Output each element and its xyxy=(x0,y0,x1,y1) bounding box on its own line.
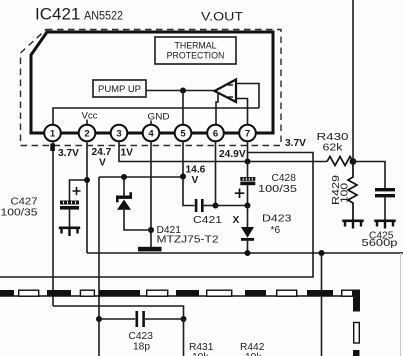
bus pad filled 2 xyxy=(47,290,71,297)
wire C423 left lead xyxy=(99,318,135,320)
bus pad filled 1 xyxy=(0,290,14,297)
svg-text:C421: C421 xyxy=(193,215,222,226)
svg-text:D423: D423 xyxy=(262,214,292,225)
wire op-amp right edge mid to pin7 xyxy=(236,99,248,126)
node pin7 rail junction xyxy=(245,159,251,165)
wire pin5 down xyxy=(182,142,184,177)
wire Vcc stub xyxy=(86,120,88,126)
svg-text:X: X xyxy=(233,215,240,226)
node pin6 C421 junction xyxy=(213,203,219,209)
bus pad filled 6 xyxy=(307,290,333,297)
node pin5 rail junction xyxy=(180,174,186,180)
capacitor C423 xyxy=(136,311,145,327)
svg-text:R430: R430 xyxy=(317,132,349,143)
node pin2/C427 junction xyxy=(84,177,90,183)
thermal protection block xyxy=(155,37,236,64)
node pin5 tap on pump-up wire xyxy=(180,88,186,94)
ground bar pin4 xyxy=(138,247,162,252)
svg-text:14.6: 14.6 xyxy=(186,165,206,176)
capacitor C427 plus sign xyxy=(73,187,81,195)
pin 2 xyxy=(79,125,96,142)
op-amp U1 (triangle) xyxy=(215,80,237,103)
svg-text:V: V xyxy=(99,158,106,169)
wire R431 branch down xyxy=(183,319,185,356)
capacitor C421 xyxy=(195,199,204,212)
wire GND stub xyxy=(150,121,152,126)
pin 3 xyxy=(111,125,128,142)
bus pad filled 3 xyxy=(99,290,140,297)
node C428/D423 junction xyxy=(245,203,251,209)
ground R429 xyxy=(342,220,363,229)
op-amp input tick + xyxy=(228,84,233,86)
bus pad filled 4 xyxy=(176,290,199,297)
wire pin5 to pump-up node xyxy=(182,91,184,126)
wire pin6 node to C428 node xyxy=(216,205,248,207)
svg-text:18p: 18p xyxy=(133,342,150,353)
op-amp input tick - xyxy=(228,96,233,98)
node D423 on rail xyxy=(245,250,251,256)
wire op-amp inverting input to pin6 xyxy=(216,94,218,125)
capacitor C425 plates xyxy=(375,188,395,197)
wire C423 right lead xyxy=(145,318,184,320)
node C423 left xyxy=(96,316,102,322)
svg-text:3.7V: 3.7V xyxy=(285,138,306,149)
bus pad open 5 xyxy=(277,290,297,296)
bus pad open 4 xyxy=(207,290,232,296)
node D421 top junction xyxy=(121,174,127,180)
resistor R430 zigzag xyxy=(327,157,353,166)
svg-text:10k: 10k xyxy=(192,352,209,356)
bus pad open 2 xyxy=(80,290,94,296)
svg-text:6: 6 xyxy=(213,129,218,140)
svg-text:V: V xyxy=(192,175,199,186)
node C423 right xyxy=(181,316,187,322)
bus pad filled 5 xyxy=(245,290,266,297)
svg-text:*6: *6 xyxy=(271,225,281,236)
svg-text:100: 100 xyxy=(340,183,351,203)
wire pin1 down xyxy=(52,142,54,307)
bus pad open 3 xyxy=(147,290,168,296)
svg-text:10k: 10k xyxy=(245,352,262,356)
node rail to bottom branch xyxy=(319,250,325,256)
svg-text:100/35: 100/35 xyxy=(258,184,297,195)
svg-text:3.7V: 3.7V xyxy=(58,148,79,159)
svg-text:1: 1 xyxy=(50,129,56,140)
svg-text:7: 7 xyxy=(245,129,250,140)
svg-text:THERMAL: THERMAL xyxy=(174,41,216,51)
bus pad open 6 xyxy=(342,290,353,296)
svg-text:AN5522: AN5522 xyxy=(84,11,123,23)
wire left box vertical x99 xyxy=(98,177,100,356)
right connector pad filled top xyxy=(353,290,360,312)
wire bottom rail y253 xyxy=(87,252,403,254)
wire pin7 down xyxy=(247,142,249,162)
wire pin5 to C421 xyxy=(183,177,195,206)
node R430/R429 junction xyxy=(350,158,357,165)
svg-text:PUMP UP: PUMP UP xyxy=(98,84,141,94)
wire pump-up output to op-amp apex xyxy=(146,90,214,92)
right connector pad open xyxy=(354,323,360,344)
svg-text:MTZJ75-T2: MTZJ75-T2 xyxy=(157,235,219,246)
wire pin7 node down to C428 xyxy=(247,162,249,178)
diode D421 zener xyxy=(116,177,151,230)
wire C428 to node xyxy=(247,185,249,205)
svg-text:GND: GND xyxy=(148,112,170,122)
wire C421 to pin6 line xyxy=(204,205,216,207)
svg-text:C428: C428 xyxy=(272,173,297,184)
svg-text:5600p: 5600p xyxy=(362,238,398,249)
svg-text:5: 5 xyxy=(180,129,186,140)
resistor R429 vertical xyxy=(348,162,357,220)
wire pin6 down xyxy=(215,142,217,206)
wire C427 branch xyxy=(70,180,88,201)
svg-text:C427: C427 xyxy=(11,197,38,208)
node D421 bottom junction xyxy=(148,227,154,233)
svg-text:4: 4 xyxy=(148,129,154,140)
bus pad open 1 xyxy=(19,290,39,296)
svg-text:24.9V: 24.9V xyxy=(219,149,246,160)
faint page edge line xyxy=(400,253,402,356)
wire C427 to ground xyxy=(69,210,71,227)
pad on pin1 wire xyxy=(50,144,55,152)
wire internal rail y108 to pin1 xyxy=(53,108,259,125)
pin 1 xyxy=(44,125,61,142)
pin 5 xyxy=(175,125,192,142)
svg-text:V.OUT: V.OUT xyxy=(201,12,243,24)
wire pin4 down xyxy=(150,142,152,231)
wire rail y177 from box corner to pin5 xyxy=(99,176,183,178)
svg-text:62k: 62k xyxy=(323,143,344,154)
svg-text:Vcc: Vcc xyxy=(82,111,99,121)
right connector pad filled bottom xyxy=(353,350,360,356)
pin 6 xyxy=(207,125,224,142)
wire branch x321 down xyxy=(321,253,323,356)
pump up block xyxy=(93,80,146,97)
wire loop right of pin7 xyxy=(0,153,313,278)
wire pin3 to long rail y161.5 xyxy=(119,142,327,162)
wire pin1 bottom route xyxy=(53,306,184,319)
svg-text:IC421: IC421 xyxy=(35,5,80,24)
ground C425 xyxy=(374,220,395,229)
wire pin4 junction to ground bar xyxy=(150,230,152,247)
svg-text:C423: C423 xyxy=(129,331,154,342)
svg-text:1V: 1V xyxy=(121,148,134,159)
wire C425 to ground xyxy=(384,197,386,219)
svg-text:24.7: 24.7 xyxy=(92,147,112,158)
wire op-amp feedback loop top xyxy=(236,84,259,109)
svg-text:100/35: 100/35 xyxy=(1,208,38,219)
ground C427 xyxy=(59,227,80,237)
capacitor C427 plates xyxy=(60,201,79,210)
capacitor C428 plus sign xyxy=(235,189,245,199)
wire pin2 down to bottom rail xyxy=(86,142,88,254)
pin 7 xyxy=(239,125,256,142)
capacitor C428 plates xyxy=(240,177,255,185)
svg-text:3: 3 xyxy=(116,129,121,140)
diode D423 xyxy=(241,206,254,254)
wire vertical x353 from top xyxy=(352,0,354,162)
pin 4 xyxy=(143,125,160,142)
bus connector line xyxy=(0,295,353,297)
svg-text:PROTECTION: PROTECTION xyxy=(167,51,225,61)
op-amp IC421 body (chamfered thick outline) xyxy=(31,32,273,133)
svg-text:2: 2 xyxy=(84,129,89,140)
wire R430 node to C425 xyxy=(353,162,385,189)
dashed IC boundary box xyxy=(21,30,282,146)
